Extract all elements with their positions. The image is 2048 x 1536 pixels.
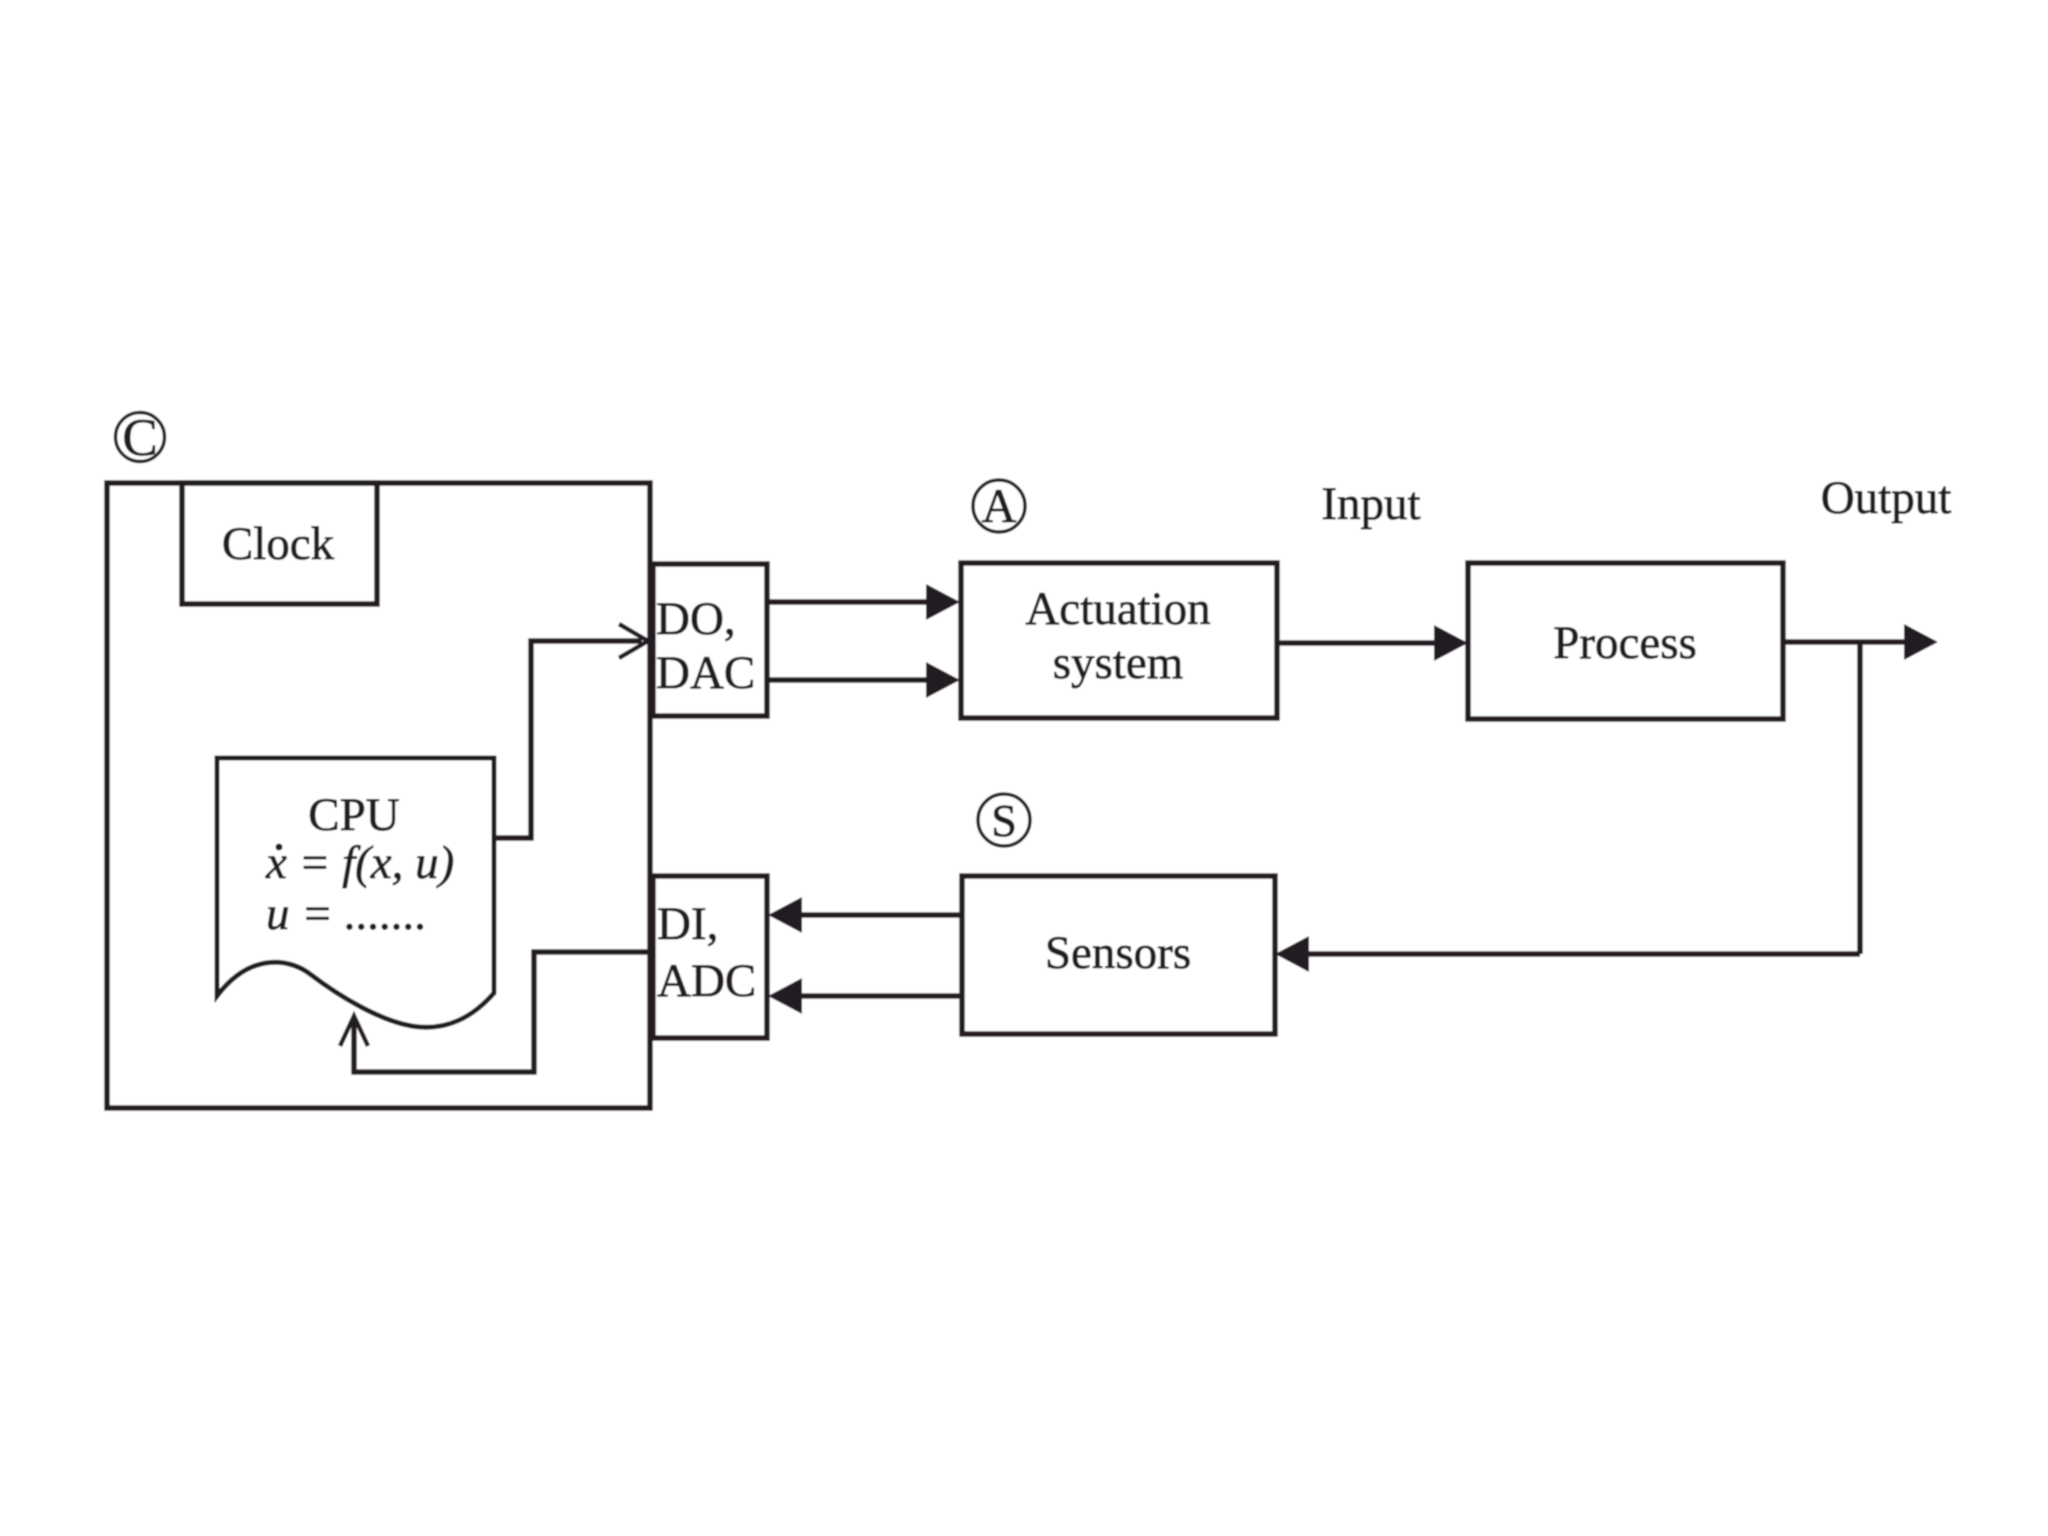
svg-text:Sensors: Sensors: [1045, 927, 1191, 979]
svg-text:system: system: [1053, 637, 1184, 689]
svg-text:DAC: DAC: [656, 647, 755, 699]
svg-text:C: C: [122, 409, 157, 467]
svg-text:CPU: CPU: [308, 789, 399, 841]
svg-text:Actuation: Actuation: [1025, 583, 1210, 635]
svg-text:DO,: DO,: [656, 593, 736, 645]
svg-text:S: S: [991, 795, 1017, 846]
svg-text:Output: Output: [1821, 472, 1952, 524]
svg-text:Process: Process: [1553, 617, 1697, 669]
svg-text:Input: Input: [1321, 478, 1420, 530]
svg-text:DI,: DI,: [657, 898, 718, 950]
svg-text:u = .......: u = .......: [266, 888, 427, 940]
svg-text:A: A: [982, 480, 1017, 533]
svg-text:x = f(x, u): x = f(x, u): [265, 837, 454, 889]
svg-text:Clock: Clock: [222, 518, 335, 570]
svg-text:ADC: ADC: [657, 955, 756, 1007]
